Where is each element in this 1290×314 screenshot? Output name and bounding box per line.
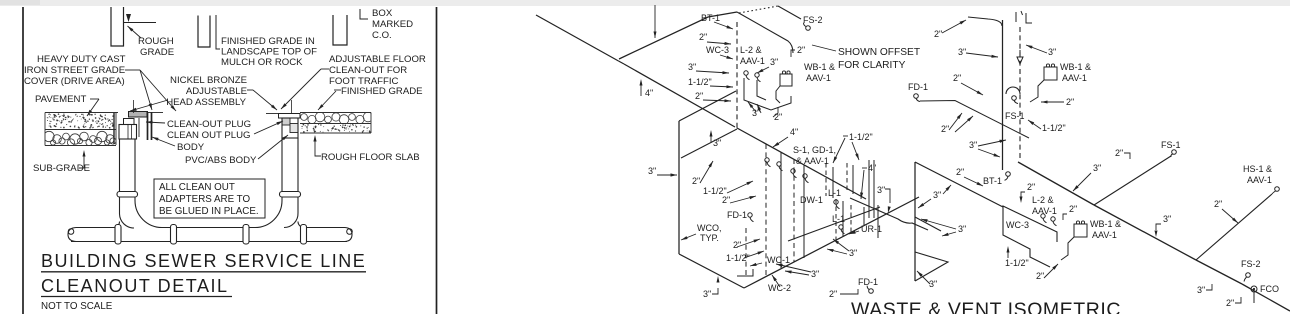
leader 3in b4b <box>776 264 811 272</box>
leader 2in hs <box>1222 209 1238 223</box>
grade tick arrow <box>126 14 131 22</box>
svg-text:3": 3" <box>929 279 937 289</box>
leader ur-1 <box>849 231 859 234</box>
svg-text:HEAVY DUTY CAST: HEAVY DUTY CAST <box>37 54 126 65</box>
fs2 2in bracket <box>791 50 795 57</box>
2in bottom bracket <box>1235 297 1241 303</box>
left riser below coupling right <box>134 197 136 201</box>
WB-1 drain a <box>776 86 780 103</box>
svg-text:ROUGH FLOOR SLAB: ROUGH FLOOR SLAB <box>321 152 420 163</box>
right riser pipe left <box>281 138 283 192</box>
3in far2 bracket <box>1156 224 1161 230</box>
drop dashed 1 <box>765 144 767 276</box>
svg-text:1-1/2": 1-1/2" <box>849 132 873 142</box>
svg-text:WASTE & VENT ISOMETRIC: WASTE & VENT ISOMETRIC <box>851 299 1121 314</box>
svg-text:COVER (DRIVE AREA): COVER (DRIVE AREA) <box>24 76 125 87</box>
svg-text:1-1/2": 1-1/2" <box>688 77 712 87</box>
3in b5 bracket <box>712 288 718 294</box>
hook FD-1 c <box>869 289 874 294</box>
svg-text:MARKED: MARKED <box>372 19 413 30</box>
trap arc r <box>1006 87 1020 94</box>
svg-text:AAV-1: AAV-1 <box>1062 73 1087 83</box>
left co wall line <box>113 113 115 144</box>
ur stack b <box>873 160 875 218</box>
svg-text:BE GLUED IN PLACE.: BE GLUED IN PLACE. <box>159 206 259 217</box>
2in low a bracket <box>773 107 778 117</box>
leader 3in b4a <box>785 271 809 275</box>
sewer pipe left bell <box>68 228 76 242</box>
svg-text:4": 4" <box>790 127 798 137</box>
upper drop solid 4 <box>852 165 854 194</box>
4in left arrow <box>640 79 643 86</box>
svg-text:L-2 &: L-2 & <box>1032 195 1054 205</box>
pipe stub 1 (street riser) <box>111 7 124 46</box>
lower drop dashed 4 <box>850 205 852 232</box>
wc-3 panel b <box>1003 206 1057 267</box>
svg-text:AAV-1: AAV-1 <box>1247 175 1272 185</box>
vent top curve <box>968 17 1002 26</box>
leader 2in r3a <box>949 113 962 130</box>
leader 3in r1 <box>966 53 998 57</box>
z-break vertical <box>914 162 916 281</box>
svg-text:2": 2" <box>797 45 805 55</box>
svg-text:2": 2" <box>1214 199 1222 209</box>
hook s-1 b <box>777 162 781 166</box>
right fco hub <box>290 124 298 133</box>
svg-text:2": 2" <box>956 167 964 177</box>
right bell hub circle <box>347 229 353 235</box>
right riser below coupling right <box>297 197 299 213</box>
svg-text:& AAV-1: & AAV-1 <box>796 156 829 166</box>
hook FD-1 b <box>748 213 752 217</box>
svg-text:CLEAN-OUT PLUG: CLEAN-OUT PLUG <box>167 119 251 130</box>
svg-text:3": 3" <box>811 269 819 279</box>
svg-text:AAV-1: AAV-1 <box>740 56 765 66</box>
hook FS-2 far <box>1246 273 1251 278</box>
leader 1-1/2in b2 <box>744 251 764 258</box>
leader finished grade <box>318 91 336 110</box>
vent line up-right <box>619 12 737 59</box>
svg-text:2": 2" <box>1069 204 1077 214</box>
left co body <box>119 125 137 140</box>
sewer pipe coupling 1 <box>115 225 121 245</box>
leader 3in low a2 <box>757 104 761 113</box>
left elbow inner sweep <box>120 214 135 228</box>
right elbow outer sweep <box>255 201 282 228</box>
sewer main r seg2 <box>1094 205 1196 260</box>
hook L-2 a2 <box>755 73 759 77</box>
svg-text:FS-1: FS-1 <box>1161 140 1181 150</box>
3in ur arrow <box>888 206 891 213</box>
WB-1 box r <box>1044 67 1057 80</box>
svg-text:TYP.: TYP. <box>700 233 719 243</box>
svg-text:2": 2" <box>1066 97 1074 107</box>
leader iron street grade <box>140 70 176 111</box>
leader 3in z1b <box>943 185 951 194</box>
lower drop solid 3 <box>842 201 844 236</box>
svg-text:C.O.: C.O. <box>372 30 392 41</box>
ur stack a <box>868 160 870 218</box>
leader body <box>152 137 175 146</box>
3in b5 arrow <box>717 276 720 283</box>
WB-1 box b <box>1074 224 1087 237</box>
svg-text:3": 3" <box>703 289 711 299</box>
svg-text:2": 2" <box>1027 182 1035 192</box>
left elbow outside small arc <box>114 222 120 228</box>
slab stipple <box>331 128 333 130</box>
hook BT-1 b <box>1006 172 1011 177</box>
svg-text:AAV-1: AAV-1 <box>1032 206 1057 216</box>
svg-text:CLEAN-OUT FOR: CLEAN-OUT FOR <box>329 65 407 76</box>
note box <box>154 179 265 218</box>
svg-text:AAV-1: AAV-1 <box>1092 230 1117 240</box>
pavement stipple <box>67 115 68 116</box>
right riser below coupling left <box>281 197 283 201</box>
svg-text:WC-2: WC-2 <box>768 283 791 293</box>
leader 2in bt <box>964 177 983 186</box>
svg-text:3": 3" <box>958 47 966 57</box>
leader pvc abs body <box>258 135 288 159</box>
leader clean-out plug <box>146 122 165 123</box>
z-break mid diag <box>915 217 941 231</box>
sewer main r seg3 <box>1196 260 1242 284</box>
hook L-2 b1 <box>1041 214 1045 218</box>
leader wc-3 a <box>720 55 733 59</box>
leader 1-1/2in r <box>1028 120 1041 129</box>
1-1/2in c leader2 <box>852 142 859 160</box>
left panel border left <box>22 7 24 314</box>
svg-text:AAV-1: AAV-1 <box>806 73 831 83</box>
branch bottom left diag <box>679 254 744 288</box>
lower drop solid 4 <box>863 207 865 226</box>
branch top diag 2 <box>681 129 737 158</box>
fixture zigzag 1 <box>744 78 791 110</box>
sub-grade arrow <box>83 150 86 157</box>
left bell hub circle <box>68 229 74 235</box>
svg-text:PVC/ABS BODY: PVC/ABS BODY <box>185 155 257 166</box>
leader 3in a1 <box>696 71 729 73</box>
hook L-2 b2 <box>1051 217 1055 221</box>
svg-text:ADAPTERS ARE TO: ADAPTERS ARE TO <box>159 194 250 205</box>
svg-text:SHOWN OFFSET: SHOWN OFFSET <box>838 47 920 58</box>
svg-text:HS-1 &: HS-1 & <box>1243 164 1272 174</box>
left co knurled cap <box>129 112 148 118</box>
leader wco <box>681 234 696 240</box>
svg-text:1-1/2": 1-1/2" <box>1042 123 1066 133</box>
svg-text:CLEAN OUT PLUG: CLEAN OUT PLUG <box>167 130 251 141</box>
svg-text:2": 2" <box>692 176 700 186</box>
clean-out for dash <box>321 68 329 70</box>
3in ur bracket <box>885 189 890 203</box>
sewer pipe top seg right <box>304 227 345 229</box>
svg-text:2": 2" <box>699 32 707 42</box>
vent to FS-2 riser <box>778 6 801 19</box>
svg-text:LANDSCAPE TOP OF: LANDSCAPE TOP OF <box>221 47 317 58</box>
leader 3in ur2b <box>833 239 849 251</box>
svg-text:NICKEL BRONZE: NICKEL BRONZE <box>170 75 247 86</box>
svg-text:WB-1 &: WB-1 & <box>804 62 835 72</box>
left co inner pipe <box>138 118 140 137</box>
leader 3in left edge <box>657 174 677 176</box>
svg-text:3": 3" <box>1093 163 1101 173</box>
svg-text:BT-1: BT-1 <box>983 176 1002 186</box>
leader 3in low a1 <box>748 102 756 112</box>
svg-text:S-1, GD-1,: S-1, GD-1, <box>793 145 836 155</box>
svg-text:FS-2: FS-2 <box>803 15 823 25</box>
lower drop dashed 3 <box>835 199 837 240</box>
hook HS-1 <box>1275 187 1280 192</box>
leader 2in b2 <box>730 196 756 203</box>
svg-text:ROUGH: ROUGH <box>138 36 174 47</box>
svg-text:1-1/2": 1-1/2" <box>1005 258 1029 268</box>
hook FS-1 r <box>1012 96 1017 101</box>
svg-text:FINISHED GRADE IN: FINISHED GRADE IN <box>221 36 315 47</box>
sewer pipe top seg mid <box>162 227 255 229</box>
right riser coupling <box>280 192 301 198</box>
z-break top diag <box>915 162 1003 207</box>
hs-1 branch <box>1196 194 1272 260</box>
hook L-2 a1 <box>744 71 748 75</box>
leader pavement <box>87 99 99 116</box>
right elbow inner sweep <box>284 213 298 228</box>
FCO symbol <box>1251 286 1257 292</box>
right elbow small right arc <box>298 222 304 228</box>
pipe stub 2 (landscape riser) <box>198 16 210 48</box>
leader 2in b3 <box>737 239 760 247</box>
fixture zigzag 1b <box>757 80 766 100</box>
leader 3in r2 <box>1026 45 1047 53</box>
grade line left of fco <box>266 113 279 115</box>
branch bottom main <box>744 197 919 288</box>
rough grade line <box>124 22 157 24</box>
svg-text:NOT TO SCALE: NOT TO SCALE <box>41 301 113 312</box>
leader bt-1 a <box>714 22 733 29</box>
branch vertical left <box>678 121 680 254</box>
leader 2in b1 <box>700 161 713 183</box>
svg-text:3": 3" <box>1163 214 1171 224</box>
3in loop arrow <box>710 130 713 137</box>
fs-1 branch <box>1094 156 1171 205</box>
svg-text:2": 2" <box>722 195 730 205</box>
leader clean-out for <box>281 69 321 109</box>
sewer pipe coupling 2 <box>171 225 177 245</box>
leader 3in mid a <box>757 67 769 73</box>
sewer main r seg1 <box>1018 162 1094 205</box>
waste main upper-left segment <box>536 15 619 61</box>
svg-text:ALL CLEAN OUT: ALL CLEAN OUT <box>159 182 235 193</box>
upper drop dashed 3 <box>825 163 827 196</box>
4in left bracket <box>640 84 642 96</box>
leader 3in ur2a <box>827 249 847 254</box>
second floor branch main <box>737 128 866 199</box>
right fco plug <box>282 118 290 125</box>
leader 4in c <box>773 137 788 147</box>
leader 2in r1 <box>942 20 966 33</box>
drop dashed 2 <box>793 159 795 262</box>
bottom jog wc-2 <box>737 269 753 276</box>
svg-text:WB-1 &: WB-1 & <box>1060 62 1091 72</box>
svg-text:GRADE: GRADE <box>140 47 174 58</box>
WB-1 box a <box>780 74 792 86</box>
gravel circles <box>44 131 116 146</box>
svg-text:BT-1: BT-1 <box>701 13 720 23</box>
sub-grade bracket <box>79 156 84 168</box>
left elbow outer sweep <box>135 201 162 228</box>
waste main jog <box>619 61 625 64</box>
second floor loop bottom <box>788 207 880 241</box>
soil stack solid <box>1002 20 1004 170</box>
leader 2in r3b <box>955 116 973 132</box>
svg-text:FINISHED GRADE: FINISHED GRADE <box>341 86 423 97</box>
adjustable dash <box>247 89 253 91</box>
leader 2in a1 <box>707 42 731 44</box>
svg-text:2": 2" <box>733 240 741 250</box>
svg-text:ADJUSTABLE FLOOR: ADJUSTABLE FLOOR <box>329 54 426 65</box>
sewer pipe coupling 3 <box>243 225 249 245</box>
vent stack 2 dashed <box>1019 27 1021 160</box>
vent offset line <box>737 12 793 53</box>
hook FD-1 r <box>914 94 919 99</box>
3in far2 arrow <box>1155 231 1158 238</box>
upper drop dashed 4 <box>846 163 848 192</box>
svg-text:PAVEMENT: PAVEMENT <box>35 94 86 105</box>
svg-text:FOR CLARITY: FOR CLARITY <box>838 60 906 71</box>
left riser below coupling left <box>119 197 121 214</box>
hook gd-1 <box>791 169 795 173</box>
leader 3in r3b <box>978 149 1000 157</box>
leader wc-1 <box>750 263 762 266</box>
branch top diag <box>679 91 736 121</box>
svg-text:WC-1: WC-1 <box>767 255 790 265</box>
svg-text:L-1: L-1 <box>828 188 841 198</box>
right riser pipe right <box>297 138 299 192</box>
svg-text:2": 2" <box>1115 148 1123 158</box>
shown offset leader <box>812 45 836 51</box>
svg-text:2": 2" <box>829 289 837 299</box>
leader head assembly left <box>130 100 168 111</box>
4in ur dash <box>862 167 867 169</box>
svg-text:DW-1: DW-1 <box>800 195 823 205</box>
drop solid 2 <box>803 165 805 258</box>
svg-text:FD-1: FD-1 <box>727 210 747 220</box>
waste main to stack base <box>624 64 735 127</box>
stub 2 center line + bracket <box>216 15 220 49</box>
pipe stub 3 (box riser) <box>333 15 347 45</box>
svg-text:3": 3" <box>1197 285 1205 295</box>
1-1/2in c dash <box>843 135 848 137</box>
leader rough grade <box>128 26 142 38</box>
svg-text:3": 3" <box>849 248 857 258</box>
hook L-1 a <box>834 200 838 204</box>
svg-text:3": 3" <box>648 166 656 176</box>
iron grade dash <box>125 69 140 71</box>
stack top glyphs <box>1016 11 1032 23</box>
svg-text:FS-1: FS-1 <box>1005 111 1025 121</box>
svg-text:WC-3: WC-3 <box>706 45 729 55</box>
svg-text:2": 2" <box>1226 298 1234 308</box>
left panel border right <box>436 7 438 314</box>
svg-text:3": 3" <box>1048 47 1056 57</box>
svg-text:3": 3" <box>688 62 696 72</box>
right fco flange <box>279 114 301 119</box>
hook FS-2 top <box>806 26 811 31</box>
bracket box marked <box>360 9 368 19</box>
svg-text:BUILDING SEWER SERVICE LINE: BUILDING SEWER SERVICE LINE <box>41 251 366 271</box>
pavement dash <box>90 98 99 100</box>
leader 3in z3 <box>917 271 930 284</box>
svg-text:3": 3" <box>877 185 885 195</box>
drop solid 1 <box>780 152 782 268</box>
leader from above <box>654 5 656 38</box>
vent stack 1 dashed <box>736 22 738 129</box>
leader adjustable right <box>253 90 277 110</box>
svg-text:3": 3" <box>969 140 977 150</box>
floor slab outline <box>300 113 371 134</box>
left co center line <box>133 100 135 113</box>
sewer pipe coupling 4 <box>301 225 307 245</box>
z-break triangle <box>915 252 948 281</box>
vent dotted offset <box>739 6 778 13</box>
hook L-1 b <box>839 225 843 229</box>
left riser coupling <box>117 192 138 198</box>
leader 2in r4 <box>1041 101 1064 103</box>
left riser pipe right <box>134 139 136 192</box>
left riser pipe left <box>119 139 121 192</box>
leader 3in z2 <box>942 232 956 236</box>
svg-text:SUB-GRADE: SUB-GRADE <box>33 163 90 174</box>
left co body inner line a <box>127 125 129 140</box>
WB-1 drain b <box>1061 237 1074 260</box>
leader 4in ur <box>861 170 864 199</box>
left co body inner line b <box>131 125 133 140</box>
leader 3in r3a <box>978 140 1006 146</box>
1-1/2in c leader1 <box>833 138 845 163</box>
leader 3in far1 <box>1073 173 1091 191</box>
hook dw-1 <box>803 174 807 178</box>
fd-1 b drop dashed <box>745 228 747 278</box>
upper drop solid 3 <box>832 167 834 198</box>
sewer main r seg4 <box>1242 284 1290 311</box>
sewer pipe bottom <box>71 241 347 243</box>
left co plug <box>124 119 135 125</box>
svg-text:2": 2" <box>934 29 942 39</box>
svg-text:IRON STREET GRADE: IRON STREET GRADE <box>24 65 125 76</box>
leader clean out plug 2 <box>254 121 283 134</box>
svg-text:2": 2" <box>774 112 782 122</box>
hook s-1 a <box>765 158 769 162</box>
svg-text:2": 2" <box>1036 271 1044 281</box>
svg-text:MULCH OR ROCK: MULCH OR ROCK <box>221 57 303 68</box>
svg-text:CLEANOUT DETAIL: CLEANOUT DETAIL <box>41 276 229 296</box>
svg-text:WB-1 &: WB-1 & <box>1090 219 1121 229</box>
ur to z-break line <box>850 198 928 230</box>
leader 3in z2b <box>921 219 956 229</box>
svg-text:3": 3" <box>933 190 941 200</box>
fd-1 c line <box>840 289 858 294</box>
title underline 2 <box>41 296 232 298</box>
rough floor slab bracket <box>315 137 321 156</box>
svg-text:2": 2" <box>695 91 703 101</box>
svg-text:3": 3" <box>958 224 966 234</box>
2in wc3b-2 bracket <box>1063 214 1067 220</box>
rough floor slab arrow <box>313 135 316 142</box>
svg-text:FCO: FCO <box>1260 284 1279 294</box>
2in wc3b-1 arrow <box>1020 197 1023 204</box>
svg-text:FD-1: FD-1 <box>908 82 928 92</box>
svg-text:1-1/2": 1-1/2" <box>726 253 750 263</box>
finished grade dash <box>334 89 341 91</box>
left co side pipe a <box>147 112 149 140</box>
